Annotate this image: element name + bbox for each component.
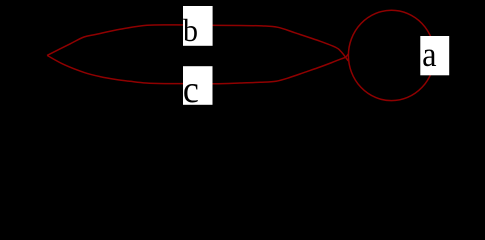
edge a (self-loop ellipse)	[348, 10, 434, 100]
svg-text:c: c	[183, 68, 199, 110]
edge b (top arc wire)	[47, 25, 348, 61]
svg-text:a: a	[422, 36, 437, 74]
label box b	[183, 6, 213, 46]
label box a	[420, 36, 449, 75]
label box c	[183, 66, 213, 105]
svg-text:b: b	[183, 13, 198, 48]
edge c (bottom arc wire)	[47, 54, 348, 84]
